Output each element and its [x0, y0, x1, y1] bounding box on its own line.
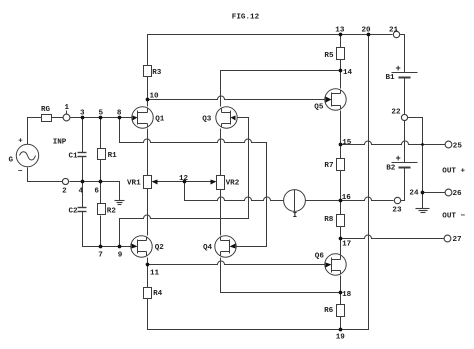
resistor R6 [337, 305, 345, 317]
battery B1 positive plate [392, 72, 418, 74]
svg-text:15: 15 [342, 139, 352, 147]
node 10 junction [146, 98, 150, 102]
transistor Q2 [131, 236, 152, 257]
wire Q6 source through node 18 to R6 [340, 276, 342, 305]
svg-text:23: 23 [392, 206, 402, 214]
svg-text:−: − [18, 168, 23, 176]
generator G [16, 144, 38, 166]
transistor Q1 [132, 107, 153, 128]
svg-text:+: + [18, 138, 23, 146]
wire generator bottom to terminal 2 [28, 168, 63, 182]
wire node 11 to Q6 gate with hop over Q4 source [148, 261, 327, 264]
svg-text:16: 16 [342, 194, 352, 202]
transistor Q4 [215, 236, 236, 257]
wire terminal 2 through nodes 4 and 6 to ground [70, 182, 120, 196]
svg-text:Q4: Q4 [203, 244, 213, 252]
svg-text:FIG.12: FIG.12 [232, 14, 260, 22]
wire Q4 source down and across to node 18 [221, 258, 341, 293]
wire R2 bottom to node 7 [100, 216, 102, 247]
wire Q3 gate down across to node 9 (cross-couple) [120, 118, 249, 247]
svg-text:VR1: VR1 [127, 179, 141, 187]
svg-text:R4: R4 [153, 290, 163, 298]
node 20 junction [367, 33, 371, 37]
wire Q3 source down to VR2 [220, 129, 222, 176]
svg-text:22: 22 [391, 109, 401, 117]
transistor Q6 [325, 254, 346, 275]
svg-text:R8: R8 [324, 216, 334, 224]
node 15 junction [339, 143, 343, 147]
terminal 21 [393, 31, 399, 37]
node 5 junction [99, 116, 103, 120]
ground near node 24 [422, 193, 424, 209]
svg-text:C1: C1 [69, 152, 79, 160]
wire node 15 to terminal 25 with hops [341, 141, 446, 144]
wire C2 bottom across through nodes 7 and 9 to Q2 gate [83, 212, 133, 247]
svg-text:1: 1 [65, 104, 70, 112]
svg-text:+: + [395, 154, 400, 164]
wire top rail from R3 corner to terminal 21 [148, 35, 393, 66]
wire current source I to node 16 and terminal 23 [306, 197, 394, 200]
wire generator top to RG [28, 118, 42, 145]
svg-text:R7: R7 [324, 162, 334, 170]
svg-text:12: 12 [179, 175, 189, 183]
svg-text:13: 13 [335, 27, 345, 35]
wire R5 top to node 13 [340, 35, 342, 48]
svg-text:4: 4 [79, 188, 84, 196]
terminal 27 [444, 235, 451, 242]
svg-text:25: 25 [453, 143, 463, 151]
node 9 junction [118, 245, 122, 249]
wire R5 bottom through node 14 to Q5 drain [340, 60, 342, 89]
svg-text:9: 9 [118, 251, 123, 259]
capacitor C2 [78, 207, 87, 209]
battery B2 negative plate [399, 167, 411, 169]
svg-text:R1: R1 [108, 152, 118, 160]
node 14 junction [339, 69, 343, 73]
wire RG to terminal 1 [52, 117, 64, 119]
wire Q2 source through node 11 to R4 [147, 258, 149, 288]
wire Q3 drain up and across to node 14 [221, 71, 341, 107]
wire terminal 23 up to battery B2 [401, 168, 405, 201]
transistor Q3 [216, 107, 237, 128]
current source I [284, 190, 306, 212]
resistor R4 [144, 288, 152, 299]
svg-text:2: 2 [62, 188, 67, 196]
svg-text:3: 3 [80, 110, 85, 118]
svg-text:18: 18 [342, 291, 352, 299]
svg-text:20: 20 [362, 27, 372, 35]
terminal 23 [394, 197, 400, 203]
svg-text:24: 24 [409, 190, 419, 198]
svg-text:6: 6 [94, 188, 99, 196]
wire node 4 down to C2 [82, 182, 84, 208]
node 8 junction [118, 116, 122, 120]
resistor R5 [337, 48, 345, 60]
ground near node 6 [119, 182, 121, 201]
battery B1 negative plate [399, 77, 411, 79]
wire node 5 down to R1 [100, 118, 102, 149]
svg-text:OUT +: OUT + [442, 168, 465, 176]
svg-text:5: 5 [99, 110, 104, 118]
node 18 junction [339, 291, 343, 295]
resistor R1 [98, 149, 106, 160]
svg-text:7: 7 [98, 251, 103, 259]
resistor R8 [337, 215, 345, 227]
node 7 junction [99, 245, 103, 249]
junction of battery rail with OUT+ wire [421, 143, 424, 146]
node 13 junction [339, 33, 343, 37]
node 16 junction [339, 199, 343, 203]
svg-text:11: 11 [150, 270, 160, 278]
svg-text:G: G [9, 156, 14, 164]
svg-text:I: I [293, 212, 298, 220]
transistor Q5 [325, 89, 346, 110]
svg-text:INP: INP [53, 138, 67, 146]
wire R8 bottom through node 17 to Q6 drain [340, 226, 342, 255]
terminal 22 [401, 114, 407, 120]
resistor R3 [144, 66, 152, 77]
svg-text:R5: R5 [324, 52, 334, 60]
terminal 2 [62, 178, 68, 184]
node 11 junction [146, 263, 150, 267]
svg-text:C2: C2 [69, 207, 79, 215]
wire node 12 down across to current source I [185, 182, 284, 201]
wire R4 bottom along bottom rail through node 19 up to node 20 [148, 35, 369, 330]
wire node 6 down to R2 [100, 182, 102, 204]
node 4 junction [81, 180, 85, 184]
wire VR1 wiper to VR2 wiper through node 12 [157, 181, 212, 183]
svg-text:14: 14 [343, 69, 353, 77]
svg-text:8: 8 [117, 110, 122, 118]
svg-text:R2: R2 [107, 207, 117, 215]
wire input rail terminal 1 to Q1 gate [70, 117, 134, 119]
wire terminal 22 right and down through node 24 to ground [408, 118, 423, 204]
wire R6 bottom to node 19 [340, 317, 342, 330]
svg-text:R3: R3 [152, 69, 162, 77]
wire R1 bottom to node 6 [100, 160, 102, 182]
node 19 junction [339, 328, 343, 332]
node 24 junction [421, 191, 425, 195]
svg-text:27: 27 [453, 236, 463, 244]
wire VR1 bottom down to Q2 drain [147, 189, 149, 236]
svg-text:+: + [395, 64, 400, 74]
capacitor C1 [78, 152, 87, 154]
battery B2 positive plate [392, 162, 418, 164]
svg-text:Q6: Q6 [315, 253, 325, 261]
svg-text:R6: R6 [324, 307, 334, 315]
wire node 24 to terminal 26 [423, 192, 446, 194]
wire node 10 to Q5 gate with hop over Q3 drain [148, 96, 327, 99]
potentiometer VR1 [144, 176, 152, 189]
wire node 3 down to C1 [82, 118, 84, 153]
wire VR2 bottom down to Q4 drain [220, 189, 222, 236]
resistor RG [42, 115, 52, 122]
wire Q1 source down to VR1 [147, 129, 149, 176]
svg-text:OUT −: OUT − [442, 212, 465, 220]
svg-text:19: 19 [336, 334, 346, 342]
node 3 junction [81, 116, 85, 120]
svg-text:26: 26 [453, 190, 463, 198]
resistor R7 [337, 159, 345, 171]
node 17 junction [339, 237, 343, 241]
wire terminal 22 down to battery B2 [404, 121, 406, 163]
svg-text:B1: B1 [386, 74, 396, 82]
svg-text:17: 17 [342, 241, 352, 249]
terminal 25 [445, 141, 452, 148]
wire Q5 source through node 15 to R7 [340, 111, 342, 159]
svg-text:VR2: VR2 [226, 179, 240, 187]
svg-text:Q3: Q3 [202, 115, 212, 123]
svg-text:B2: B2 [386, 165, 396, 173]
svg-text:Q1: Q1 [155, 115, 165, 123]
svg-text:10: 10 [150, 92, 160, 100]
svg-text:Q2: Q2 [155, 244, 165, 252]
wire top rail right of terminal 21 down to battery B1 [400, 35, 405, 73]
potentiometer VR2 [217, 176, 225, 190]
node 6 junction [99, 180, 103, 184]
terminal 1 [63, 114, 70, 121]
svg-text:21: 21 [389, 27, 399, 35]
wire R3 bottom through node 10 to Q1 drain [147, 77, 149, 107]
svg-text:RG: RG [41, 106, 51, 114]
wire R7 bottom through node 16 to R8 [340, 171, 342, 215]
resistor R2 [98, 204, 106, 215]
wire node 8 down across to Q4 gate (cross-couple) [120, 118, 267, 247]
node 12 junction [183, 180, 187, 184]
wire C1 bottom to node 4 [82, 157, 84, 182]
svg-text:Q5: Q5 [314, 104, 324, 112]
terminal 26 [445, 189, 452, 196]
wire node 17 to terminal 27 with hop [341, 235, 445, 238]
wire battery B1 bottom to terminal 22 [404, 78, 406, 115]
